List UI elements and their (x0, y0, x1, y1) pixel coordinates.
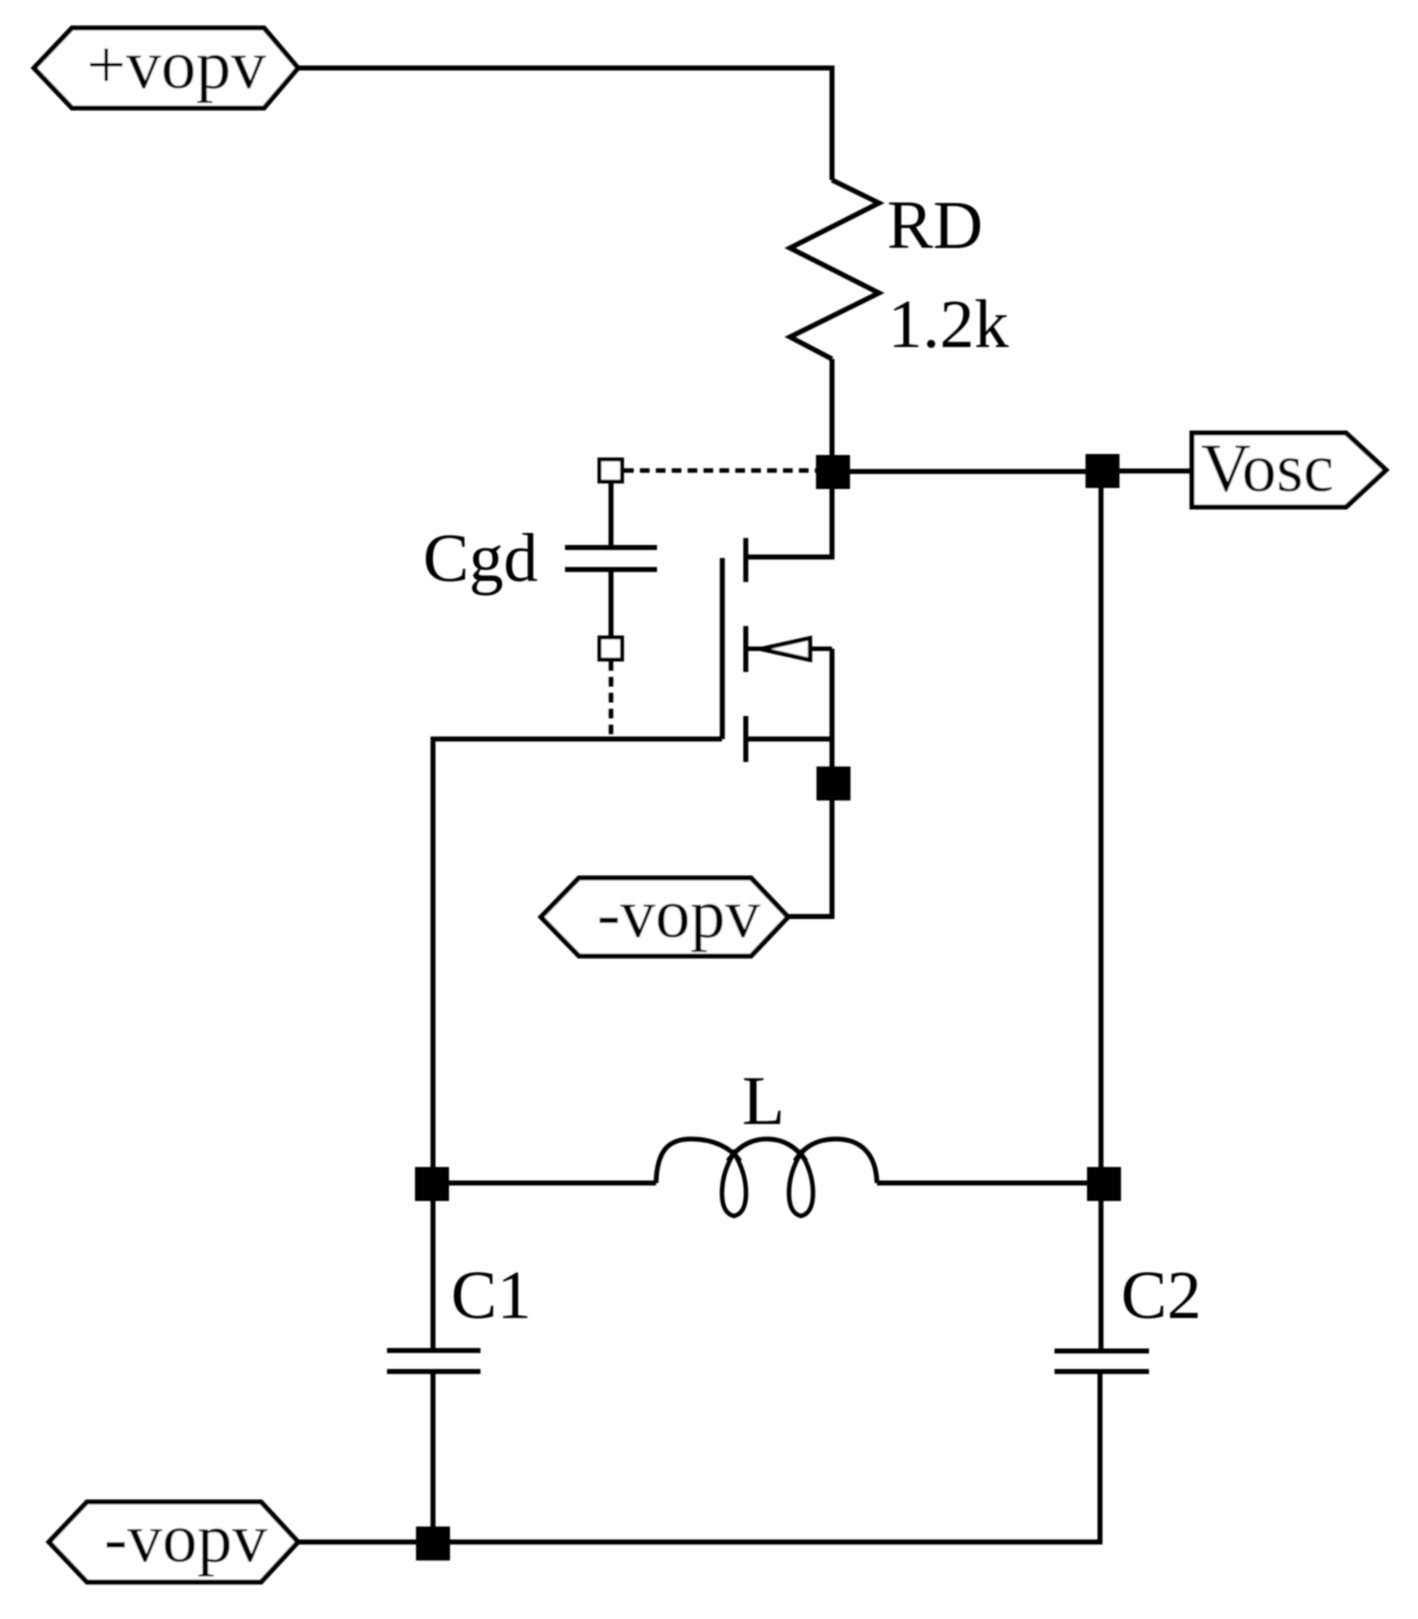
junction bottom node (416, 1527, 450, 1561)
svg-text:1.2k: 1.2k (888, 286, 1009, 362)
wire C2 to bottom rail (1098, 1374, 1103, 1542)
wire drain lead from node to transistor (746, 489, 832, 557)
svg-text:+vopv: +vopv (87, 27, 266, 104)
svg-text:Cgd: Cgd (423, 520, 538, 596)
svg-text:C2: C2 (1121, 1257, 1202, 1333)
transistor M1 NMOS (722, 538, 832, 762)
wire pin to top plate (609, 481, 614, 546)
svg-text:RD: RD (887, 187, 983, 263)
inductor L (433, 1063, 1104, 1216)
net flag +vopv (34, 28, 298, 108)
wire L to right rail (877, 1181, 1104, 1186)
net flag -vopv bottom (49, 1502, 298, 1582)
svg-text:L: L (742, 1063, 785, 1140)
C2 top plate (1055, 1349, 1150, 1354)
coil loop 1 (722, 1153, 746, 1216)
body lead wire (810, 647, 832, 652)
body lead stub (746, 647, 763, 652)
capacitor Cgd (423, 460, 657, 660)
svg-text:C1: C1 (451, 1257, 532, 1333)
C1 bottom plate (387, 1369, 481, 1374)
wire from RD bottom to node Vosc (830, 359, 835, 472)
wire bottom plate to pin (609, 572, 614, 638)
capacitor C2 (1055, 1257, 1202, 1542)
top plate (565, 545, 657, 550)
wire from +vopv flag to resistor RD top (298, 68, 832, 180)
junction L right node (1087, 1167, 1121, 1201)
bottom plate (565, 567, 657, 572)
wire gate to left rail (433, 739, 722, 1349)
coil hump 3 (795, 1139, 877, 1183)
resistor RD (790, 180, 879, 359)
wire left rail to L (433, 1181, 656, 1186)
drain channel bar (743, 538, 748, 582)
junction Vosc node (1086, 454, 1120, 488)
gate bar (720, 558, 725, 739)
junction drain node (816, 455, 850, 489)
C2 bottom plate (1055, 1369, 1150, 1374)
pin square top (600, 460, 623, 482)
body channel bar (743, 626, 748, 672)
dashed connection Cgd to drain node (624, 468, 816, 473)
wire Vosc node down right side to C2 (1099, 471, 1104, 1349)
C1 top plate (387, 1348, 481, 1353)
coil hump 1 (656, 1139, 740, 1183)
body to source tie wire (830, 649, 835, 739)
net flag -vopv mid (541, 878, 788, 956)
pin square bottom (600, 638, 623, 660)
wire source down to -vopv flag (788, 739, 832, 917)
junction source node (817, 767, 851, 801)
source channel bar (743, 716, 748, 762)
capacitor C1 (387, 1257, 532, 1528)
bottom rail wire -vopv (298, 1374, 1100, 1542)
coil hump 2 (728, 1139, 806, 1161)
body arrow (761, 638, 810, 660)
coil loop 2 (789, 1153, 813, 1216)
svg-text:-vopv: -vopv (597, 876, 760, 953)
junction L left node (415, 1167, 449, 1201)
source lead (746, 737, 832, 742)
svg-text:-vopv: -vopv (104, 1501, 267, 1578)
wire junction to Vosc flag (1102, 469, 1192, 474)
wire node Vosc horizontal run (832, 469, 1102, 474)
svg-text:Vosc: Vosc (1201, 430, 1334, 506)
wire C1 to bottom rail (431, 1374, 436, 1528)
net flag Vosc (1192, 433, 1386, 507)
dashed connection Cgd to gate wire (609, 661, 614, 737)
